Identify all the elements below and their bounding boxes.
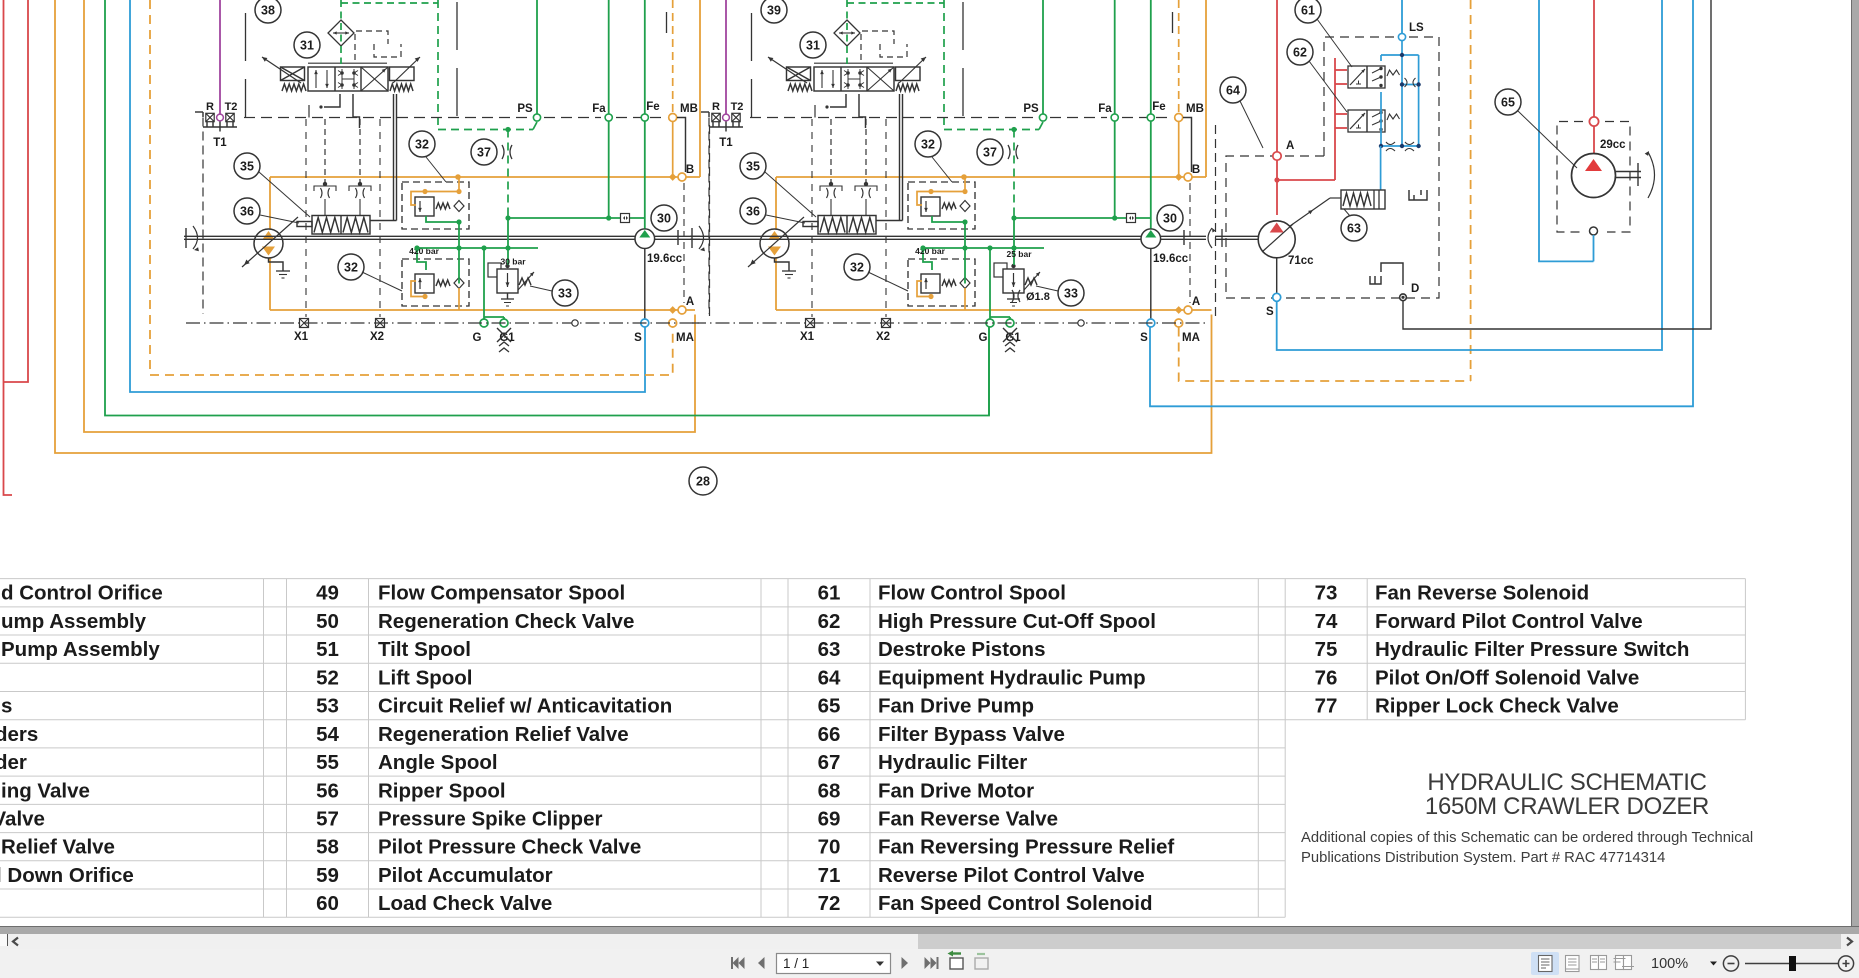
- svg-text:Angle Spool: Angle Spool: [378, 751, 498, 774]
- wire orange dashed middle MA: [1179, 328, 1471, 382]
- svg-text:Tilt Spool: Tilt Spool: [378, 638, 471, 661]
- svg-text:58: 58: [316, 836, 339, 859]
- svg-text:52: 52: [316, 666, 339, 689]
- solenoid valve 62: [1348, 110, 1385, 132]
- svg-text:Pressure Spike Clipper: Pressure Spike Clipper: [378, 807, 602, 830]
- wire orange dashed left loop: [150, 0, 673, 375]
- wire green middle G drop: [988, 328, 990, 416]
- svg-text:Equipment Hydraulic Pump: Equipment Hydraulic Pump: [878, 666, 1146, 689]
- svg-text:67: 67: [818, 751, 841, 774]
- wire orange loop inner: [84, 0, 695, 432]
- parts table grid: [0, 578, 1745, 580]
- svg-text:53: 53: [316, 695, 339, 718]
- svg-text:Additional copies of this Sche: Additional copies of this Schematic can …: [1301, 830, 1753, 846]
- svg-text:38: 38: [261, 3, 275, 17]
- svg-text:30 bar: 30 bar: [500, 257, 526, 267]
- svg-text:Reverse Pilot Control Valve: Reverse Pilot Control Valve: [878, 864, 1145, 887]
- svg-text:Relief Valve: Relief Valve: [1, 836, 115, 859]
- svg-text:57: 57: [316, 807, 339, 830]
- svg-text:63: 63: [1347, 221, 1361, 235]
- fan drain port: [1590, 227, 1598, 235]
- drain symbol: [1409, 190, 1427, 200]
- wire blue pilot net: [1380, 55, 1382, 61]
- wire red return left inner: [4, 0, 29, 382]
- svg-text:49: 49: [316, 582, 339, 605]
- svg-text:50: 50: [316, 610, 339, 633]
- svg-text:65: 65: [818, 695, 841, 718]
- wire red supply riser: [1276, 0, 1278, 152]
- svg-text:72: 72: [818, 892, 841, 915]
- svg-text:55: 55: [316, 751, 339, 774]
- valve group 1: [184, 0, 710, 352]
- leader 65: [1518, 111, 1577, 168]
- balloon 64: [1220, 77, 1246, 103]
- svg-text:61: 61: [818, 582, 841, 605]
- port LS: [1401, 0, 1403, 33]
- svg-text:Fan Reverse Valve: Fan Reverse Valve: [878, 807, 1058, 830]
- leader 61: [1317, 19, 1352, 67]
- svg-text:Ripper Lock Check Valve: Ripper Lock Check Valve: [1375, 695, 1619, 718]
- svg-text:Pilot Accumulator: Pilot Accumulator: [378, 864, 553, 887]
- svg-text:25 bar: 25 bar: [1006, 249, 1032, 259]
- plugged port symbol: [1381, 263, 1403, 285]
- svg-text:66: 66: [818, 723, 841, 746]
- port D: [1400, 294, 1407, 301]
- svg-text:ing Valve: ing Valve: [1, 779, 90, 802]
- svg-text:39: 39: [767, 3, 781, 17]
- svg-text:LS: LS: [1409, 22, 1424, 34]
- svg-text:Fan Speed Control Solenoid: Fan Speed Control Solenoid: [878, 892, 1152, 915]
- wire orange A-line left group: [270, 176, 700, 178]
- wire blue S middle: [1150, 0, 1693, 406]
- svg-text:Fan Drive Pump: Fan Drive Pump: [878, 695, 1034, 718]
- svg-text:Valve: Valve: [0, 807, 45, 830]
- svg-text:l Down Orifice: l Down Orifice: [0, 864, 134, 887]
- svg-text:62: 62: [818, 610, 841, 633]
- svg-text:Lift Spool: Lift Spool: [378, 666, 473, 689]
- svg-text:63: 63: [818, 638, 841, 661]
- wire orange loop outer: [55, 0, 1212, 453]
- svg-text:Publications Distribution Syst: Publications Distribution System. Part #…: [1301, 850, 1665, 866]
- svg-text:60: 60: [316, 892, 339, 915]
- svg-text:Hydraulic Filter: Hydraulic Filter: [878, 751, 1027, 774]
- svg-text:56: 56: [316, 779, 339, 802]
- svg-text:D: D: [1411, 283, 1419, 295]
- balloon 39: [761, 0, 787, 23]
- svg-text:54: 54: [316, 723, 339, 746]
- manifold dashed box fan pump: [1557, 122, 1583, 233]
- svg-text:Hydraulic Filter Pressure Swit: Hydraulic Filter Pressure Switch: [1375, 638, 1689, 661]
- svg-text:100%: 100%: [1651, 956, 1688, 972]
- shaft 71cc: [1215, 235, 1258, 237]
- svg-text:HYDRAULIC SCHEMATIC: HYDRAULIC SCHEMATIC: [1427, 769, 1706, 796]
- svg-text:ump Assembly: ump Assembly: [1, 610, 147, 633]
- fan inlet port: [1589, 117, 1598, 126]
- svg-text:69: 69: [818, 807, 841, 830]
- leader 64: [1240, 101, 1263, 148]
- svg-text:1650M CRAWLER DOZER: 1650M CRAWLER DOZER: [1425, 793, 1709, 820]
- destroke pistons 63: [1341, 190, 1385, 209]
- svg-text:71: 71: [818, 864, 841, 887]
- wire red return left outer: [4, 0, 13, 495]
- svg-text:28: 28: [696, 474, 710, 488]
- svg-text:Load Check Valve: Load Check Valve: [378, 892, 552, 915]
- balloon 63: [1341, 215, 1367, 241]
- wire blue long left: [130, 0, 645, 392]
- valve group 2: [690, 0, 1216, 352]
- svg-text:77: 77: [1315, 695, 1338, 718]
- svg-text:59: 59: [316, 864, 339, 887]
- svg-text:Fan Drive Motor: Fan Drive Motor: [878, 779, 1034, 802]
- svg-text:1 / 1: 1 / 1: [783, 956, 809, 971]
- wire blue fan drain: [1593, 235, 1595, 261]
- wire red to control valves: [1277, 179, 1335, 181]
- leader 62: [1309, 61, 1347, 112]
- spring right: [1387, 70, 1400, 76]
- svg-text:Filter Bypass Valve: Filter Bypass Valve: [878, 723, 1065, 746]
- wire blue S equip: [1277, 0, 1662, 350]
- svg-text:Fan Reversing Pressure Relief: Fan Reversing Pressure Relief: [878, 836, 1174, 859]
- svg-text:Ripper Spool: Ripper Spool: [378, 779, 506, 802]
- wire orange dashed riser equip: [1470, 0, 1472, 381]
- wire orange A-line middle group: [776, 176, 1206, 178]
- svg-text:68: 68: [818, 779, 841, 802]
- svg-text:Destroke Pistons: Destroke Pistons: [878, 638, 1045, 661]
- svg-text:ders: ders: [0, 723, 38, 746]
- solenoid valve 61: [1348, 66, 1385, 88]
- svg-text:Circuit Relief w/ Anticavitati: Circuit Relief w/ Anticavitation: [378, 695, 672, 718]
- svg-text:73: 73: [1315, 582, 1338, 605]
- destroke actuation arm: [1290, 198, 1330, 226]
- svg-text:Pump Assembly: Pump Assembly: [1, 638, 160, 661]
- svg-text:51: 51: [316, 638, 339, 661]
- svg-text:65: 65: [1501, 95, 1515, 109]
- svg-text:S: S: [1266, 306, 1274, 318]
- svg-text:Regeneration Relief Valve: Regeneration Relief Valve: [378, 723, 629, 746]
- svg-text:d Control Orifice: d Control Orifice: [1, 582, 163, 605]
- wire red to fan pump: [1593, 126, 1595, 158]
- svg-text:64: 64: [1226, 83, 1240, 97]
- svg-text:71cc: 71cc: [1288, 255, 1314, 267]
- wire red fan riser: [1593, 0, 1595, 117]
- svg-text:High Pressure Cut-Off Spool: High Pressure Cut-Off Spool: [878, 610, 1156, 633]
- svg-text:Flow Control Spool: Flow Control Spool: [878, 582, 1066, 605]
- svg-text:61: 61: [1301, 3, 1315, 17]
- port A equipment: [1273, 152, 1281, 160]
- svg-text:s: s: [1, 695, 12, 718]
- svg-text:Ø1.8: Ø1.8: [1026, 291, 1050, 303]
- svg-text:Forward Pilot Control Valve: Forward Pilot Control Valve: [1375, 610, 1643, 633]
- balloon 61: [1295, 0, 1321, 23]
- svg-text:29cc: 29cc: [1600, 139, 1626, 151]
- balloon 38: [255, 0, 281, 23]
- svg-text:64: 64: [818, 666, 841, 689]
- svg-text:Pilot Pressure Check Valve: Pilot Pressure Check Valve: [378, 836, 641, 859]
- manifold dashed box pump 64: [1226, 156, 1439, 298]
- wire red A to pump: [1276, 161, 1278, 216]
- wire pump 71cc to S: [1276, 258, 1278, 293]
- balloon 65: [1495, 89, 1521, 115]
- balloon 28: [689, 467, 717, 495]
- balloon 62: [1287, 39, 1313, 65]
- svg-text:Flow Compensator Spool: Flow Compensator Spool: [378, 582, 625, 605]
- svg-text:76: 76: [1315, 666, 1338, 689]
- wire black case drain D: [1403, 0, 1711, 329]
- wire blue to destroke: [1380, 146, 1382, 190]
- wire green long: [105, 0, 989, 416]
- svg-text:70: 70: [818, 836, 841, 859]
- svg-text:75: 75: [1315, 638, 1338, 661]
- svg-text:Fan Reverse Solenoid: Fan Reverse Solenoid: [1375, 582, 1589, 605]
- svg-text:der: der: [0, 751, 27, 774]
- svg-text:62: 62: [1293, 45, 1307, 59]
- spring right: [1387, 114, 1400, 120]
- label orifice dia: [1012, 290, 1020, 302]
- port S equipment: [1273, 293, 1281, 301]
- svg-text:A: A: [1286, 140, 1294, 152]
- svg-text:74: 74: [1315, 610, 1338, 633]
- pump 64 (71cc): [1258, 221, 1295, 258]
- fan shaft: [1616, 171, 1642, 173]
- pump 65 (29cc): [1572, 154, 1616, 198]
- wire blue fan loop: [1539, 0, 1594, 261]
- svg-text:Regeneration Check Valve: Regeneration Check Valve: [378, 610, 634, 633]
- svg-text:Pilot On/Off Solenoid Valve: Pilot On/Off Solenoid Valve: [1375, 666, 1639, 689]
- manifold dashed box control valves: [1324, 37, 1395, 156]
- leader 63: [1344, 209, 1350, 216]
